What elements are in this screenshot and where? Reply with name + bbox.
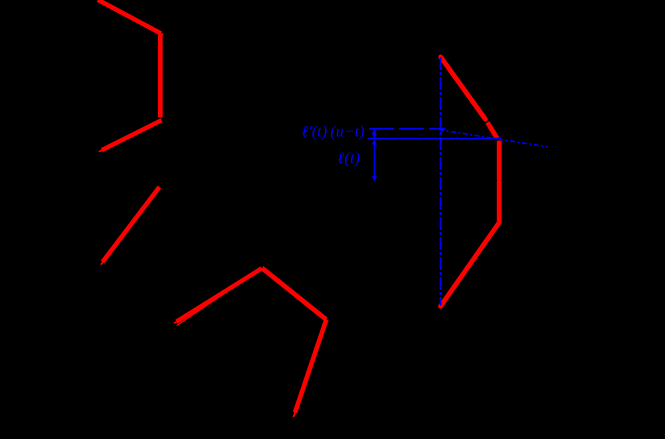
red polygon edge: left figure top diagonal (98, 0, 164, 35)
red polygon edge: right figure vertical upper piece (497, 141, 502, 181)
red polygon edge: bottom figure steep descending segment (293, 320, 326, 418)
blue vertical dash-dot construction line (440, 57, 442, 306)
red polygon edge: left figure vertical (158, 35, 163, 118)
blue measurement arrow for segment length (372, 139, 377, 181)
svg-text:ℓ′(t) (u−t): ℓ′(t) (u−t) (302, 124, 365, 141)
red polygon edge: right figure top diagonal (lower part after notch) (487, 122, 497, 138)
blue dash-dot tangent line through corner (439, 130, 548, 147)
red polygon edge: right figure vertical lower piece and elbow diagonal (441, 182, 500, 306)
blue dashed horizontal level line (top) (369, 128, 445, 130)
red polygon edge: left figure lower diagonal (99, 120, 162, 152)
red polygon edge: right figure top diagonal (upper part) (441, 57, 486, 119)
red polygon edge: bottom figure right descending diagonal (262, 268, 326, 320)
svg-text:ℓ(t): ℓ(t) (338, 150, 361, 167)
blue measurement double arrow between level lines (372, 129, 377, 138)
blue thin horizontal level line (bottom) (368, 137, 502, 139)
red polygon edge: left lower separate diagonal (101, 187, 159, 265)
red polygon edge: bottom figure left rising diagonal (174, 268, 262, 325)
